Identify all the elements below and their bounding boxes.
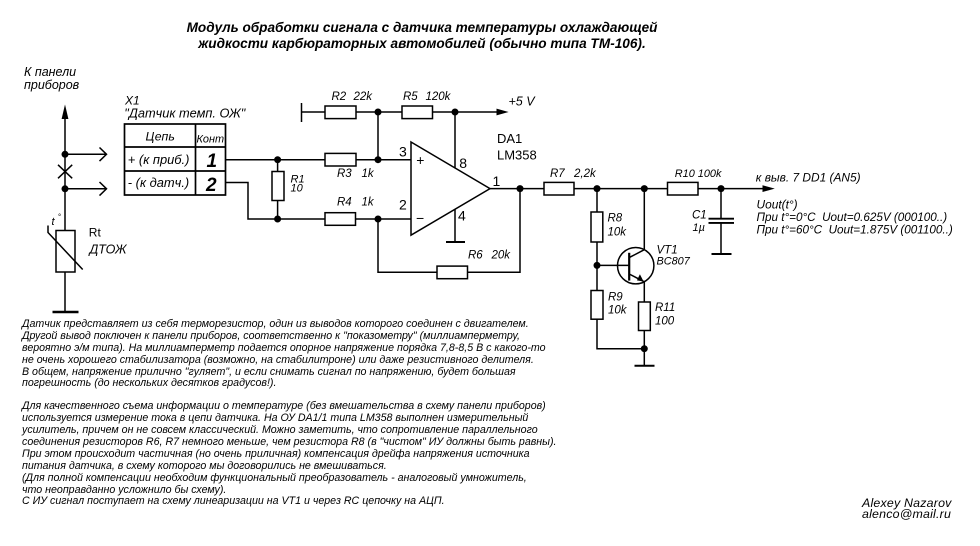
node: base junction xyxy=(594,262,601,269)
svg-text:R7: R7 xyxy=(550,168,565,180)
svg-text:R8: R8 xyxy=(608,213,623,225)
op-amp U1 DA1 LM358 triangle xyxy=(411,142,490,235)
wire: thermistor to ground xyxy=(64,272,66,312)
svg-text:R10 100k: R10 100k xyxy=(675,168,722,180)
svg-text:C1: C1 xyxy=(692,209,707,221)
wire: tick to R2 xyxy=(302,111,326,113)
wire: node B to R4 xyxy=(278,218,325,220)
node: R8 branch xyxy=(594,185,601,192)
title xyxy=(0,20,844,52)
wire: R4 to op-amp pin 2 xyxy=(356,218,412,220)
wire: R10 to output arrow xyxy=(698,185,775,192)
svg-text:Uout(t°): Uout(t°) xyxy=(757,197,798,211)
ground (C1) xyxy=(712,253,732,255)
resistor R11 xyxy=(639,302,651,331)
svg-text:R11: R11 xyxy=(655,302,675,314)
svg-text:100: 100 xyxy=(655,316,675,328)
wire: node to ground xyxy=(643,349,645,366)
svg-text:+: + xyxy=(416,152,424,168)
wire: R9 top lead xyxy=(596,265,598,290)
note paragraph 1 xyxy=(22,319,546,390)
svg-text:1: 1 xyxy=(207,151,218,172)
svg-text:°: ° xyxy=(58,213,61,222)
wire: R9 bottom to emitter ground node xyxy=(597,319,644,349)
svg-text:При t°=60°C Uout=1.875V (0011: При t°=60°C Uout=1.875V (001100..) xyxy=(757,224,953,237)
svg-text:+5 V: +5 V xyxy=(509,95,537,109)
wire: R7 to R10 rail xyxy=(574,188,668,190)
svg-text:10: 10 xyxy=(291,183,304,195)
wire: feedback right leg up to output xyxy=(468,189,521,273)
svg-text:LM358: LM358 xyxy=(497,147,537,162)
note paragraph 2 xyxy=(22,401,557,508)
svg-text:R2: R2 xyxy=(332,91,347,103)
node: output/feedback junction xyxy=(517,185,524,192)
resistor R1 xyxy=(272,160,284,219)
wire: terminal tick at R2 input xyxy=(301,103,303,122)
wire: node A to R3 xyxy=(278,159,325,161)
svg-text:BC807: BC807 xyxy=(657,255,691,267)
svg-text:10k: 10k xyxy=(608,226,628,238)
svg-text:1k: 1k xyxy=(362,168,375,180)
resistor R7 xyxy=(544,182,574,195)
node: feedback junction at pin 2 xyxy=(375,216,382,223)
svg-text:"Датчик темп. ОЖ": "Датчик темп. ОЖ" xyxy=(124,106,246,121)
ground (R9/R11) xyxy=(635,365,655,367)
svg-text:R4: R4 xyxy=(337,197,352,209)
wire: pin 8 vertical xyxy=(454,112,456,168)
svg-text:- (к датч.): - (к датч.) xyxy=(128,175,189,190)
svg-text:к выв. 7 DD1 (AN5): к выв. 7 DD1 (AN5) xyxy=(756,171,861,185)
node B: R1 bottom junction xyxy=(274,216,281,223)
svg-text:Rt: Rt xyxy=(89,226,102,240)
node: X break mark on wire xyxy=(58,165,72,179)
svg-text:R6: R6 xyxy=(468,249,483,261)
wire: feedback left leg xyxy=(378,219,437,272)
svg-text:10k: 10k xyxy=(608,304,628,316)
svg-text:приборов: приборов xyxy=(24,78,80,92)
svg-text:При t°=0°C Uout=0.625V (00010: При t°=0°C Uout=0.625V (000100..) xyxy=(757,211,948,224)
node: emitter ground junction xyxy=(641,345,648,352)
svg-text:4: 4 xyxy=(458,207,466,223)
ground (op-amp pin 4) xyxy=(446,241,465,243)
svg-text:22k: 22k xyxy=(353,91,374,103)
wire: R8 bottom to base node xyxy=(596,242,598,265)
wire: X1 pin2 down-around to node B xyxy=(226,183,278,220)
author xyxy=(862,498,952,521)
wire: arrow to connector pin 1 xyxy=(65,148,107,162)
resistor R5 xyxy=(402,106,433,119)
wire: collector up to rail xyxy=(643,189,645,250)
svg-text:R3: R3 xyxy=(337,168,352,180)
resistor Rt (thermistor ДТОЖ) xyxy=(48,226,83,273)
resistor R2 xyxy=(325,106,356,119)
svg-text:8: 8 xyxy=(459,155,467,171)
wire: left vertical from panel arrow to thermistor xyxy=(64,116,66,231)
svg-text:+ (к приб.): + (к приб.) xyxy=(128,152,190,167)
node: R3 output junction xyxy=(375,156,382,163)
wire: X1 pin1 to node A xyxy=(226,159,278,161)
connector X1 table xyxy=(125,124,226,195)
wire: R5 to +5V arrow xyxy=(433,109,509,116)
wire: R3 to op-amp pin 3 xyxy=(356,159,411,161)
svg-text:DA1: DA1 xyxy=(497,131,522,146)
transistor Q1 VT1 BC807 xyxy=(618,248,654,284)
capacitor C1 xyxy=(709,189,735,254)
svg-text:120k: 120k xyxy=(426,91,452,103)
svg-text:2,2k: 2,2k xyxy=(573,168,597,180)
resistor R9 xyxy=(591,291,603,320)
resistor R6 xyxy=(437,266,468,279)
node: C1 branch xyxy=(718,185,725,192)
wire: R11 to ground node xyxy=(643,331,645,349)
svg-text:ДТОЖ: ДТОЖ xyxy=(88,243,128,257)
node: junction dot lower (to pin 2 arrow) xyxy=(62,185,69,192)
ground (sensor) xyxy=(53,311,79,313)
wire: arrow up to panel xyxy=(62,105,69,120)
wire: node to noninverting input rail xyxy=(377,112,379,160)
wire: pin 4 vertical xyxy=(454,209,456,242)
svg-text:Конт: Конт xyxy=(197,134,225,146)
node: pin 8 branch on +5V rail xyxy=(452,109,459,116)
resistor R4 xyxy=(325,213,356,226)
svg-text:t: t xyxy=(52,216,56,228)
resistor R8 xyxy=(591,212,603,242)
wire: op-amp output to R7 xyxy=(490,188,544,190)
node: top rail / pin3 branch xyxy=(375,109,382,116)
node A: R1 top junction xyxy=(274,156,281,163)
svg-text:К панели: К панели xyxy=(24,65,76,79)
svg-text:3: 3 xyxy=(399,143,407,159)
node: junction dot upper (to pin 1 arrow) xyxy=(62,151,69,158)
svg-text:1k: 1k xyxy=(362,197,375,209)
resistor R10 xyxy=(668,182,699,195)
svg-text:R5: R5 xyxy=(403,91,418,103)
wire: base node to transistor xyxy=(597,264,628,266)
resistor R3 xyxy=(325,153,356,166)
wire: R2 to R5 xyxy=(356,111,402,113)
svg-text:20k: 20k xyxy=(491,249,512,261)
svg-text:1µ: 1µ xyxy=(693,222,705,234)
svg-text:R9: R9 xyxy=(608,292,623,304)
wire: R8 top lead xyxy=(596,189,598,212)
svg-text:2: 2 xyxy=(399,197,407,213)
wire: emitter down to R11 xyxy=(643,282,645,302)
svg-text:2: 2 xyxy=(205,175,217,196)
wire: arrow to connector pin 2 xyxy=(65,182,107,196)
node: collector branch xyxy=(641,185,648,192)
svg-text:1: 1 xyxy=(493,173,501,189)
svg-text:−: − xyxy=(416,210,424,226)
svg-text:Цепь: Цепь xyxy=(146,129,175,143)
